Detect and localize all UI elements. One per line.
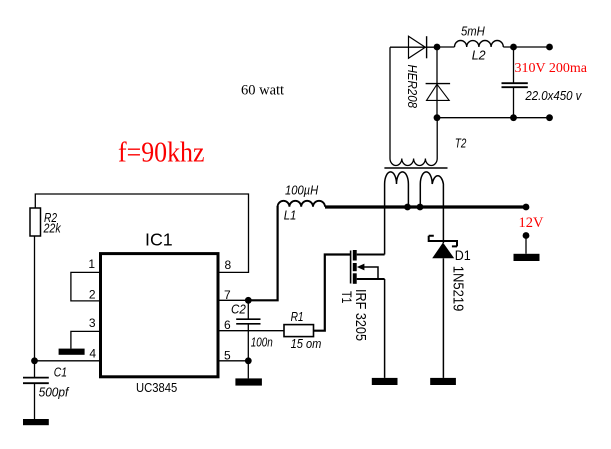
svg-text:100µH: 100µH: [285, 183, 319, 198]
node pin7 junction: [245, 297, 252, 304]
wire feedback: R2 top to pin 8: [35, 194, 248, 272]
capacitor C1: [23, 361, 70, 419]
inductor L1 100uH: [278, 183, 325, 223]
node output- terminal: [546, 114, 553, 121]
svg-text:IRF 3205: IRF 3205: [352, 289, 369, 341]
wire 12V rail: [325, 205, 526, 208]
svg-text:C2: C2: [231, 301, 246, 316]
resistor R1: [284, 309, 322, 351]
node pin5 junction: [245, 357, 252, 364]
svg-text:5mH: 5mH: [461, 24, 485, 39]
svg-text:22k: 22k: [43, 221, 62, 236]
ground pin3: [59, 349, 85, 355]
svg-text:HER208: HER208: [405, 65, 420, 109]
wire pins 1-2 bracket: [71, 272, 99, 301]
ground C1: [23, 419, 49, 425]
ground T1 source: [372, 378, 398, 385]
wire pin5 node to ground: [247, 361, 249, 379]
inductor L2 5mH: [437, 24, 503, 63]
wire VCC to L1: [248, 206, 277, 300]
svg-text:1: 1: [88, 257, 95, 271]
wire L2 to output: [503, 46, 549, 48]
node primary A right leg on rail: [404, 204, 411, 211]
diode D1 1N5219 zener: [429, 236, 471, 378]
node after L2: [510, 44, 517, 51]
diode D2 HER208: [390, 36, 437, 108]
diode D3 vertical rectifier: [426, 47, 451, 118]
wire R2 bottom to C1 node: [34, 236, 36, 361]
svg-text:f=90khz: f=90khz: [118, 137, 205, 168]
transformer T2 core: [384, 167, 447, 169]
svg-text:L2: L2: [472, 47, 487, 62]
svg-text:IC1: IC1: [145, 229, 173, 249]
ground D1: [430, 378, 456, 385]
svg-text:R1: R1: [291, 309, 304, 324]
svg-text:T2: T2: [455, 136, 467, 151]
svg-text:500pf: 500pf: [39, 384, 70, 399]
svg-text:L1: L1: [284, 208, 297, 223]
svg-text:D1: D1: [455, 247, 471, 263]
transformer T2 primary winding A: [385, 172, 409, 207]
svg-text:3: 3: [89, 316, 96, 330]
svg-text:22.0x450 v: 22.0x450 v: [525, 88, 583, 103]
wire gate drive: [314, 255, 351, 331]
wire pin 5: [219, 360, 248, 362]
transformer T2 secondary winding: [390, 47, 437, 165]
node 12V supply terminal dot: [523, 232, 530, 239]
capacitor C2: [231, 300, 273, 361]
wire pin 4: [35, 360, 100, 362]
wire pin 3 to ground: [71, 331, 99, 348]
node secondary top junction: [434, 44, 441, 51]
svg-text:60 watt: 60 watt: [241, 83, 284, 99]
svg-text:8: 8: [225, 258, 232, 272]
power supply bar 12V: [514, 236, 540, 262]
transistor T1 IRF3205: [339, 250, 385, 341]
node primary B left leg on rail: [417, 204, 424, 211]
svg-text:C1: C1: [54, 364, 67, 379]
svg-text:UC3845: UC3845: [136, 380, 177, 395]
node bottom left: [434, 114, 441, 121]
capacitor C3 22.0x450v: [502, 47, 583, 118]
wire pin 7: [219, 299, 248, 301]
node bottom cap: [510, 114, 517, 121]
IC U1 IC1 UC3845 box: [101, 229, 219, 395]
node 12V rail terminal: [523, 204, 530, 211]
transformer T2 primary winding B: [420, 172, 443, 237]
svg-text:100n: 100n: [251, 335, 273, 350]
svg-text:2: 2: [89, 288, 96, 302]
svg-text:4: 4: [89, 347, 96, 361]
resistor R2: [30, 208, 62, 236]
svg-text:12V: 12V: [519, 215, 545, 231]
svg-text:15 om: 15 om: [291, 336, 322, 351]
node C1/pin4 junction: [31, 357, 38, 364]
node output+ terminal: [546, 44, 553, 51]
wire drain to transformer primary: [384, 184, 386, 255]
svg-text:6: 6: [224, 318, 231, 332]
wire pin 6: [219, 330, 284, 332]
svg-text:1N5219: 1N5219: [450, 266, 466, 312]
ground pin5: [235, 378, 262, 385]
wire source to ground: [384, 279, 386, 378]
wire output bottom rail: [437, 117, 550, 119]
svg-text:310V 200ma: 310V 200ma: [515, 61, 588, 76]
